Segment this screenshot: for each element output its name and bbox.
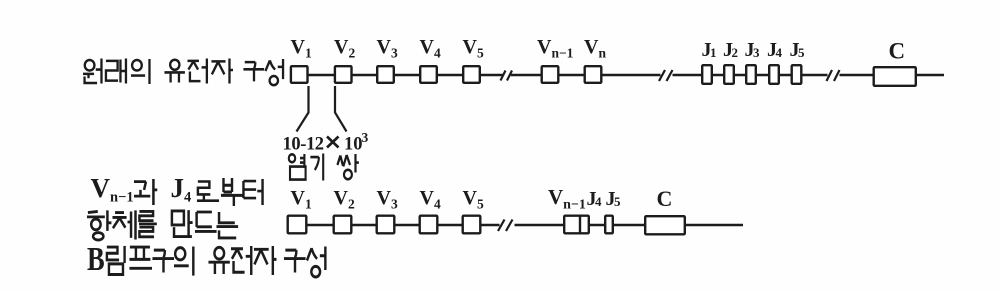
svg-text:C: C: [889, 39, 906, 64]
leader right: [335, 86, 347, 132]
break mark 2 top: [659, 70, 673, 81]
box V3 top: [377, 66, 394, 83]
box V4 top: [420, 66, 437, 83]
svg-text:3: 3: [362, 130, 369, 145]
svg-text:J1: J1: [702, 39, 717, 61]
svg-text:V5: V5: [463, 36, 484, 61]
box J5 bottom: [605, 216, 613, 234]
box J2 top: [724, 65, 734, 84]
svg-text:B: B: [87, 240, 105, 278]
svg-text:J3: J3: [745, 39, 761, 61]
svg-text:V2: V2: [334, 36, 355, 61]
korean title 원래의 유전자 구성: [83, 59, 283, 86]
korean 염기 쌍: [289, 154, 359, 181]
box J3 top: [746, 65, 756, 84]
box J5 top: [792, 65, 802, 84]
box V2 top: [335, 66, 352, 83]
box V2 bottom: [334, 216, 352, 234]
svg-text:10: 10: [344, 135, 363, 155]
break mark 3 top: [827, 70, 840, 81]
svg-text:Vn−1: Vn−1: [548, 185, 586, 213]
box C top: [874, 67, 916, 86]
box V1 bottom: [288, 216, 307, 234]
svg-text:V1: V1: [291, 36, 312, 61]
box V5 top: [463, 66, 480, 83]
box V3 bottom: [377, 216, 395, 234]
svg-text:Vn−1: Vn−1: [537, 36, 574, 61]
svg-text:J4: J4: [767, 39, 783, 61]
svg-text:J5: J5: [606, 188, 622, 210]
svg-text:V4: V4: [420, 187, 441, 212]
svg-text:J4: J4: [587, 188, 603, 210]
svg-text:C: C: [657, 186, 673, 211]
box V4 bottom: [420, 216, 438, 234]
svg-text:J2: J2: [723, 39, 738, 61]
svg-text:V3: V3: [377, 36, 398, 61]
svg-text:V2: V2: [334, 187, 355, 212]
wire top segment 1: [290, 74, 503, 76]
svg-text:V4: V4: [420, 36, 441, 61]
svg-text:J4: J4: [171, 173, 192, 206]
break mark bottom: [498, 220, 513, 232]
svg-text:10-12: 10-12: [283, 135, 324, 155]
box J1 top: [702, 65, 712, 84]
svg-text:V5: V5: [463, 187, 484, 212]
box Vn-1+J4 bottom: [564, 216, 589, 234]
box Vn top: [585, 66, 602, 83]
wire top segment 2: [511, 74, 661, 76]
break mark 1 top: [501, 71, 513, 81]
box Vn-1 top: [542, 66, 559, 83]
box J4 top: [769, 65, 779, 84]
wire top segment 3: [673, 74, 828, 76]
svg-text:Vn−1: Vn−1: [91, 173, 134, 206]
wire bottom segment 2: [515, 224, 744, 226]
korean caption line2 항체를 만드는: [87, 210, 238, 240]
svg-text:J5: J5: [790, 39, 806, 61]
svg-text:V3: V3: [377, 187, 398, 212]
divider Vn-1/J4: [579, 216, 581, 234]
wire bottom segment 1: [287, 224, 500, 226]
box C bottom: [645, 216, 685, 234]
leader left: [297, 86, 309, 132]
wire top segment 4: [840, 74, 945, 76]
svg-text:V1: V1: [291, 187, 312, 212]
box V5 bottom: [463, 216, 481, 234]
box V1 top: [291, 66, 308, 83]
svg-text:Vn: Vn: [584, 36, 606, 61]
